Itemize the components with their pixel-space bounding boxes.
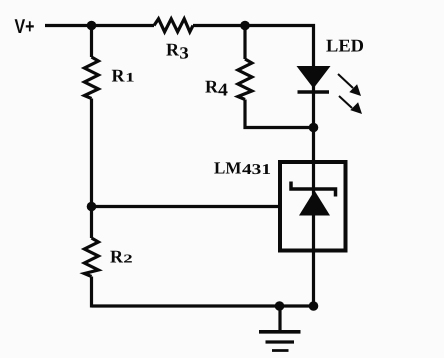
svg-text:LED: LED — [326, 36, 364, 56]
shunt regulator U1 LM431 — [214, 158, 346, 250]
wire node D through LM431 to ground rail — [312, 128, 315, 307]
svg-text:LM: LM — [214, 158, 241, 177]
svg-text:R: R — [110, 247, 124, 267]
svg-text:1: 1 — [125, 70, 134, 85]
wire R2 bottom to ground rail — [90, 277, 93, 308]
resistor R3 — [154, 19, 193, 63]
svg-text:R: R — [205, 77, 219, 97]
wire LED cathode to node D — [312, 85, 315, 128]
resistor R4 — [205, 26, 252, 100]
resistor R2 — [84, 207, 132, 277]
resistor R1 — [84, 26, 134, 99]
junction node E (bottom of LM431 branch) — [309, 301, 319, 311]
svg-text:R: R — [166, 39, 180, 59]
svg-text:2: 2 — [123, 252, 132, 266]
ground — [259, 306, 301, 351]
wire node A to R3 left lead — [92, 24, 155, 27]
wire R3 right lead to node B — [193, 24, 245, 27]
wire node B to LED branch corner — [245, 26, 314, 67]
svg-text:V+: V+ — [15, 16, 35, 38]
svg-text:431: 431 — [242, 162, 271, 178]
junction node B (top of R4) — [240, 21, 250, 31]
wire R4 bottom to node D — [245, 100, 314, 128]
wire reference: node C to LM431 box — [92, 205, 283, 208]
svg-text:4: 4 — [218, 79, 228, 99]
junction node A (top of R1) — [87, 21, 97, 31]
wire bottom ground rail — [92, 304, 314, 307]
LED D1 — [298, 36, 365, 114]
junction node D (LED cathode / LM431 cathode) — [309, 123, 319, 133]
svg-text:3: 3 — [179, 43, 188, 62]
svg-text:R: R — [112, 66, 126, 86]
wire R1 bottom to node C — [90, 99, 93, 207]
junction node GND (ground tap) — [275, 301, 285, 311]
junction node C (feedback node) — [87, 202, 97, 212]
wire V+ lead to node A — [45, 24, 92, 27]
